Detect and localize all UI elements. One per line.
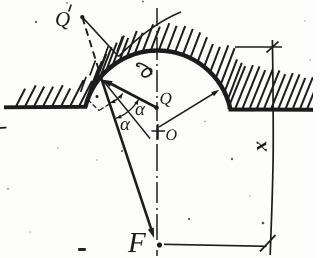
svg-text:O: O (166, 127, 178, 144)
svg-text:α: α (120, 114, 131, 135)
svg-text:x: x (247, 140, 272, 153)
svg-text:F: F (127, 227, 146, 258)
svg-text:α: α (135, 99, 146, 120)
svg-text:Q: Q (55, 7, 70, 31)
svg-text:Q: Q (160, 89, 172, 108)
